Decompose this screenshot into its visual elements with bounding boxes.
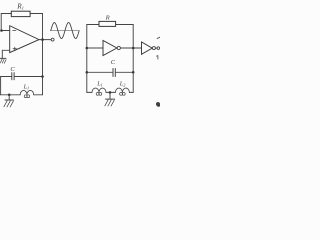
svg-text:C: C bbox=[111, 59, 116, 66]
svg-text:C: C bbox=[10, 66, 15, 73]
svg-text:L1: L1 bbox=[23, 84, 30, 91]
svg-text:R1: R1 bbox=[16, 2, 24, 10]
svg-text:L2: L2 bbox=[119, 81, 126, 88]
svg-text:R: R bbox=[105, 14, 110, 21]
svg-text:L1: L1 bbox=[96, 81, 103, 88]
